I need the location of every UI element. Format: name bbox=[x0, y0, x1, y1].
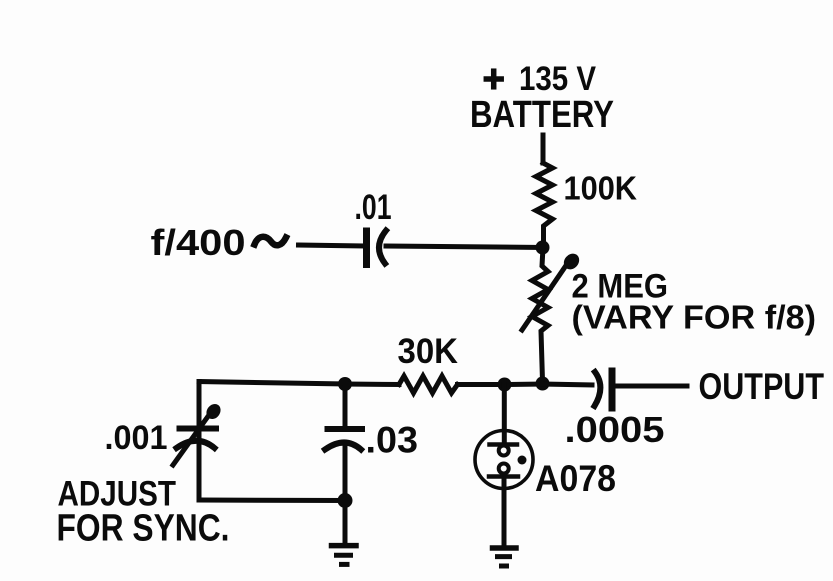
tube A078 bbox=[475, 431, 533, 489]
wire tube cathode to ground bbox=[502, 477, 507, 545]
node B+ junction bbox=[536, 241, 550, 255]
node output junction bbox=[536, 377, 550, 391]
wire .03 branch lower bbox=[343, 443, 348, 501]
svg-text:A078: A078 bbox=[535, 458, 616, 499]
wire loop left lower bbox=[197, 429, 202, 500]
ground right bbox=[493, 548, 517, 566]
wire loop left upper bbox=[197, 382, 202, 428]
wire tube anode bbox=[502, 385, 507, 445]
svg-text:FOR SYNC.: FOR SYNC. bbox=[57, 508, 230, 550]
wire tube node to output node bbox=[505, 382, 543, 388]
capacitor .001 variable bbox=[173, 401, 223, 465]
resistor 2 MEG variable bbox=[522, 248, 582, 382]
wire to ground left bbox=[343, 501, 348, 544]
resistor 100K bbox=[536, 163, 553, 241]
wire loop top bbox=[199, 382, 345, 385]
wire junction to resistor bbox=[345, 382, 399, 388]
wire resistor to tube node bbox=[458, 382, 505, 387]
wire .03 branch upper bbox=[343, 384, 348, 427]
svg-text:30K: 30K bbox=[398, 332, 459, 371]
wire input to capacitor bbox=[299, 245, 364, 246]
node loop bottom junction bbox=[338, 493, 353, 508]
svg-text:.03: .03 bbox=[366, 420, 419, 461]
svg-text:f/400: f/400 bbox=[151, 222, 246, 263]
wire capacitor to node bbox=[386, 246, 543, 248]
label +135V plus sign bbox=[486, 76, 501, 82]
node loop top junction bbox=[338, 377, 352, 391]
svg-text:OUTPUT: OUTPUT bbox=[699, 366, 825, 407]
svg-text:100K: 100K bbox=[564, 170, 638, 207]
wire battery lead bbox=[541, 135, 546, 163]
wire output lead bbox=[616, 384, 688, 389]
symbol AC source tilde bbox=[255, 237, 287, 246]
node tube junction bbox=[498, 378, 512, 392]
capacitor .01 bbox=[367, 231, 387, 265]
ground left bbox=[332, 546, 357, 565]
svg-text:.001: .001 bbox=[105, 419, 168, 457]
svg-text:135 V: 135 V bbox=[519, 60, 596, 98]
wire loop bottom bbox=[199, 498, 345, 504]
capacitor .03 bbox=[325, 429, 362, 450]
svg-text:BATTERY: BATTERY bbox=[470, 94, 614, 136]
svg-text:(VARY FOR f/8): (VARY FOR f/8) bbox=[572, 299, 817, 336]
capacitor .0005 bbox=[595, 371, 613, 408]
resistor 30K bbox=[399, 376, 458, 393]
svg-text:.01: .01 bbox=[355, 188, 392, 227]
svg-text:.0005: .0005 bbox=[565, 409, 665, 450]
wire node to output capacitor bbox=[543, 384, 593, 385]
